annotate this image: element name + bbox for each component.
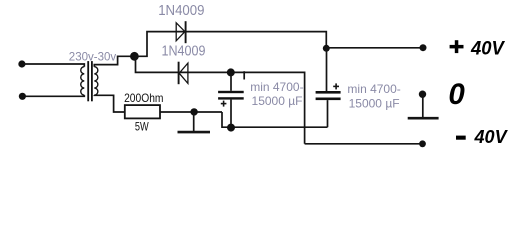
node C junction dot on D2 wire (227, 68, 235, 76)
label C2 min 4700-15000 uF (347, 82, 400, 111)
wire node B down to capacitor C2 (326, 48, 328, 91)
wire node B to +40V terminal (326, 47, 421, 49)
diode D1 1N4009 triangle (176, 23, 185, 41)
capacitor C2 plates (316, 91, 341, 100)
diode D1 cathode bar (185, 21, 187, 43)
svg-text:40V: 40V (473, 127, 508, 147)
transformer T1 secondary winding (94, 67, 98, 95)
svg-text:15000 µF: 15000 µF (349, 97, 400, 111)
node B junction dot (323, 45, 330, 52)
label C1 min 4700-15000 uF (250, 80, 303, 108)
wire input bottom to transformer (25, 95, 84, 96)
wire secondary bottom to resistor (94, 95, 125, 112)
stub right of capacitor C1 plates (243, 71, 245, 79)
-40V terminal dot (419, 140, 426, 147)
svg-text:1N4009: 1N4009 (162, 43, 206, 59)
wire secondary top to node A (94, 56, 134, 66)
svg-text:40V: 40V (470, 37, 506, 59)
wire through diode D1 to top corner (176, 32, 326, 49)
svg-text:15000 µF: 15000 µF (252, 94, 303, 108)
wire node A up to diode D1 rail (134, 32, 176, 57)
svg-text:1N4009: 1N4009 (158, 3, 204, 19)
0V terminal dot (419, 91, 426, 98)
input terminal bottom (19, 93, 26, 100)
capacitor C2 bottom lead (327, 100, 329, 127)
0V terminal bar (408, 117, 439, 120)
diode D2 cathode bar (178, 62, 180, 84)
svg-text:230v-30v: 230v-30v (69, 51, 117, 63)
svg-text:200Ohm: 200Ohm (124, 91, 163, 105)
rail junction dot under C1 (227, 124, 235, 132)
+40V terminal dot (420, 44, 427, 51)
wire resistor to rail step (160, 111, 222, 113)
svg-text:0: 0 (448, 78, 465, 111)
wire input top to transformer (24, 64, 84, 67)
label +40V plus sign (450, 40, 464, 53)
svg-text:min 4700-: min 4700- (250, 80, 303, 94)
svg-text:5W: 5W (135, 119, 149, 133)
capacitor C2 polarity plus (333, 83, 339, 89)
ground junction dot (190, 108, 197, 115)
svg-text:min 4700-: min 4700- (347, 82, 400, 96)
capacitor C1 top lead (230, 72, 232, 90)
wire node A down to diode D2 (136, 56, 179, 72)
diode D2 1N4009 triangle (179, 63, 188, 83)
capacitor C1 bottom lead (230, 100, 232, 128)
node A junction dot (130, 52, 139, 61)
wire -40V rail to terminal (305, 143, 421, 145)
0V terminal drop (422, 94, 424, 117)
ground symbol drop (193, 112, 195, 131)
capacitor C1 polarity plus (221, 101, 227, 107)
transformer T1 primary winding (81, 67, 85, 95)
transformer T1 core (87, 61, 93, 101)
ground symbol bar (178, 131, 211, 134)
input terminal top (18, 60, 25, 67)
capacitor C1 plates (218, 91, 244, 100)
label -40V minus sign (456, 136, 466, 140)
wire through diode D2 to -40V drop (179, 72, 305, 143)
bottom rail wire (222, 112, 328, 127)
resistor R1 body (125, 105, 160, 118)
